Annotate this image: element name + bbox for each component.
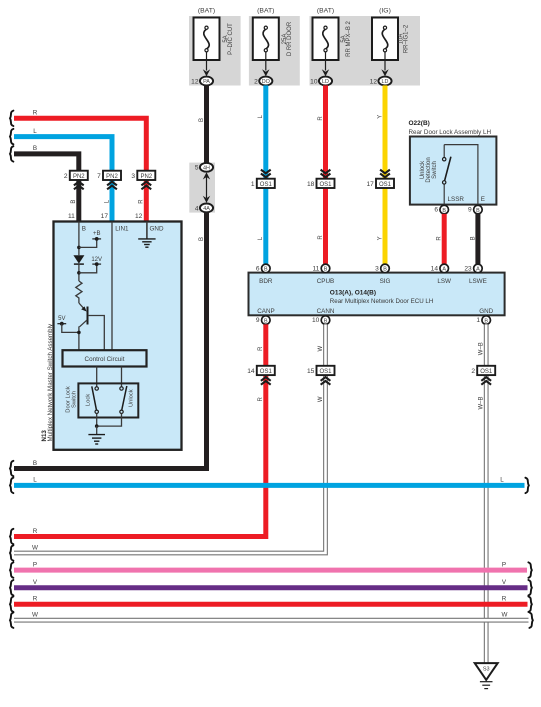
- svg-text:B: B: [264, 318, 268, 324]
- connector LD pin 12: [370, 77, 392, 86]
- control circuit box: [63, 350, 147, 366]
- wire W white bus: [14, 618, 529, 623]
- pin 23 A LSWE: [464, 264, 482, 273]
- svg-text:DO: DO: [262, 79, 270, 85]
- connector OS1 pin 1: [251, 179, 275, 188]
- pin 14 A LSW: [431, 264, 449, 273]
- pin 9 B CANP: [256, 316, 270, 325]
- svg-text:R: R: [33, 110, 38, 117]
- svg-text:(IG): (IG): [379, 7, 391, 14]
- svg-text:R: R: [139, 199, 145, 204]
- wire control to unlock switch: [121, 367, 123, 388]
- switch Unlock: [120, 386, 127, 413]
- svg-text:V: V: [33, 579, 38, 586]
- ground switch ground: [88, 426, 105, 444]
- svg-text:(BAT): (BAT): [317, 7, 334, 14]
- break symbol L right: [525, 478, 528, 493]
- connector panel 4H/4A background: [189, 163, 215, 213]
- svg-text:R: R: [502, 596, 507, 603]
- wire fuse4 to connector: [384, 52, 386, 71]
- svg-text:GND: GND: [479, 308, 493, 315]
- svg-text:Unlock: Unlock: [129, 389, 135, 407]
- svg-text:A: A: [442, 267, 446, 273]
- svg-text:PN2: PN2: [73, 174, 85, 180]
- switch Lock: [92, 386, 99, 413]
- svg-text:W: W: [502, 612, 508, 619]
- wire L blue top-left from edge to PN2 7: [14, 137, 112, 171]
- svg-text:1: 1: [476, 317, 480, 324]
- svg-text:4H: 4H: [203, 166, 210, 172]
- node +B: [77, 231, 101, 249]
- break symbol W right: [529, 613, 532, 628]
- svg-text:B: B: [199, 237, 205, 241]
- break symbol R left: [10, 529, 13, 544]
- node 5V: [57, 316, 80, 334]
- svg-text:Lock: Lock: [86, 394, 92, 406]
- svg-text:B: B: [484, 318, 488, 324]
- svg-text:CPUB: CPUB: [317, 278, 335, 285]
- svg-text:Switch: Switch: [432, 161, 438, 179]
- break symbol R top: [10, 111, 13, 126]
- svg-text:GND: GND: [150, 226, 164, 233]
- svg-text:6: 6: [256, 265, 260, 272]
- svg-text:CANP: CANP: [257, 308, 275, 315]
- svg-text:P: P: [33, 561, 37, 568]
- break symbol P left: [10, 562, 13, 577]
- pin 9 B of O22: [468, 205, 482, 214]
- svg-text:12: 12: [135, 213, 143, 220]
- svg-text:3: 3: [375, 265, 379, 272]
- wire P pink bus: [14, 568, 527, 573]
- wire LIN1 internal: [111, 222, 113, 351]
- svg-text:S3: S3: [483, 667, 490, 673]
- svg-text:LIN1: LIN1: [115, 226, 129, 233]
- svg-text:B: B: [383, 267, 387, 273]
- connector 4A pin 4: [195, 204, 213, 213]
- wire R red PN2 to pin 12: [144, 180, 149, 222]
- wire R red top-left from edge to PN2 3: [14, 118, 146, 170]
- svg-text:PN2: PN2: [106, 174, 118, 180]
- svg-text:B: B: [82, 226, 86, 233]
- svg-text:R: R: [318, 235, 324, 240]
- break symbol R2 left: [10, 597, 13, 612]
- resistor R1: [76, 281, 82, 303]
- wire switches to ground: [95, 414, 122, 428]
- wire between 4H and 4A: [203, 172, 210, 203]
- svg-text:18: 18: [307, 181, 315, 188]
- ground S3: [475, 663, 498, 689]
- svg-text:10: 10: [312, 317, 320, 324]
- svg-text:5: 5: [195, 165, 199, 172]
- svg-text:B: B: [33, 460, 37, 467]
- svg-text:7: 7: [97, 173, 101, 180]
- fuse panel 2 background: [249, 16, 300, 86]
- break symbol B bottom: [10, 461, 13, 476]
- svg-text:W: W: [318, 346, 324, 352]
- connector LD pin 10: [310, 77, 332, 86]
- connector OS1 pin 17: [366, 179, 394, 188]
- svg-text:OS1: OS1: [260, 369, 273, 375]
- break symbol V right: [528, 580, 531, 595]
- svg-text:OS1: OS1: [260, 182, 273, 188]
- wire L blue PN2 to pin 17: [110, 180, 115, 222]
- svg-text:11: 11: [312, 265, 319, 272]
- svg-text:1: 1: [251, 181, 255, 188]
- svg-text:4A: 4A: [203, 206, 210, 212]
- svg-text:LSW: LSW: [437, 278, 451, 285]
- svg-text:B: B: [470, 236, 476, 240]
- svg-text:12: 12: [191, 78, 199, 85]
- connector PA pin 12: [191, 77, 213, 86]
- master switch assembly N13 box: [54, 222, 182, 450]
- svg-text:W: W: [32, 612, 38, 619]
- break symbol P right: [528, 562, 531, 577]
- svg-text:A: A: [476, 267, 480, 273]
- svg-text:B: B: [476, 208, 480, 214]
- break symbol W2 left: [10, 613, 13, 628]
- svg-text:CANN: CANN: [317, 308, 335, 315]
- svg-text:P–DIC CUT: P–DIC CUT: [228, 23, 234, 55]
- svg-text:B: B: [264, 267, 268, 273]
- wire control to lock switch: [96, 367, 98, 388]
- svg-text:PA: PA: [203, 79, 210, 85]
- wire B black from PA: [204, 85, 209, 162]
- break symbol R right: [528, 597, 531, 612]
- svg-text:(BAT): (BAT): [198, 7, 215, 14]
- svg-text:W: W: [318, 396, 324, 402]
- wire W-B from GND down: [484, 324, 489, 663]
- connector OS1 pin 15: [307, 366, 335, 375]
- door lock switch box: [78, 383, 138, 417]
- svg-text:2: 2: [64, 173, 68, 180]
- wire R red LSSR to LSW: [442, 214, 447, 264]
- wire W white CANN down: [14, 324, 326, 553]
- svg-text:(BAT): (BAT): [257, 7, 274, 14]
- svg-text:12V: 12V: [91, 257, 102, 263]
- svg-text:W–B: W–B: [479, 342, 485, 355]
- wire B black from 4A down: [14, 212, 207, 468]
- svg-text:B: B: [442, 208, 446, 214]
- connector PN2 pin 2: [64, 171, 88, 180]
- diode D1: [73, 255, 84, 264]
- svg-text:Rear Door Lock Assembly LH: Rear Door Lock Assembly LH: [409, 129, 492, 136]
- wire L blue from DO: [263, 85, 268, 264]
- svg-text:Y: Y: [377, 115, 383, 119]
- connector PN2 pin 7: [97, 171, 121, 180]
- wire B black PN2 to pin 11: [76, 180, 81, 222]
- svg-text:O22(B): O22(B): [409, 120, 430, 127]
- connector DO pin 2: [254, 77, 272, 86]
- svg-text:R: R: [33, 596, 38, 603]
- svg-text:17: 17: [101, 213, 109, 220]
- connector PN2 pin 3: [131, 171, 155, 180]
- connector OS1 pin 18: [307, 179, 335, 188]
- svg-text:17: 17: [366, 181, 374, 188]
- svg-text:LSWE: LSWE: [469, 278, 487, 285]
- transistor Q1: [79, 303, 104, 350]
- wire R red bus: [14, 602, 528, 607]
- wire V violet bus: [14, 585, 528, 590]
- break symbol V left: [10, 580, 13, 595]
- svg-text:B: B: [33, 145, 37, 152]
- svg-text:PN2: PN2: [140, 174, 152, 180]
- fuse 5A RR MPX-B 2: [313, 18, 339, 61]
- svg-text:RR–IG1–2: RR–IG1–2: [404, 24, 410, 53]
- svg-text:23: 23: [464, 265, 472, 272]
- fuse panel 3-4 background: [310, 16, 421, 86]
- ECU box O13(A) O14(B): [249, 273, 505, 316]
- svg-text:L: L: [500, 477, 504, 484]
- svg-text:6: 6: [434, 207, 438, 214]
- svg-text:14: 14: [431, 265, 439, 272]
- svg-text:W–B: W–B: [479, 396, 485, 409]
- svg-text:9: 9: [468, 207, 472, 214]
- svg-text:OS1: OS1: [379, 182, 392, 188]
- svg-text:L: L: [33, 477, 37, 484]
- fuse 10A RR-IG1-2: [372, 18, 398, 61]
- svg-text:+B: +B: [93, 231, 101, 237]
- node 12V: [77, 257, 102, 281]
- break symbol L top: [10, 129, 13, 144]
- svg-text:W: W: [32, 544, 38, 551]
- pin 11 B CPUB: [312, 264, 329, 273]
- svg-text:P: P: [502, 561, 506, 568]
- connector OS1 pin 2: [471, 366, 495, 375]
- svg-text:L: L: [33, 128, 37, 135]
- wire Y yellow from LD: [383, 85, 388, 264]
- svg-text:9: 9: [256, 317, 260, 324]
- svg-text:4: 4: [195, 205, 199, 212]
- svg-text:B: B: [324, 318, 328, 324]
- svg-text:Multiplex Network Master Switc: Multiplex Network Master Switch Assembly: [47, 323, 54, 442]
- svg-text:3: 3: [131, 173, 135, 180]
- connector OS1 pin 14: [247, 366, 275, 375]
- svg-text:B: B: [324, 267, 328, 273]
- pin 10 B CANN: [312, 316, 330, 325]
- wire B black E to LSWE: [475, 214, 480, 264]
- svg-text:Rear Multiplex Network Door EC: Rear Multiplex Network Door ECU LH: [330, 298, 434, 305]
- break symbol B top: [10, 146, 13, 161]
- door lock assembly O22 box: [410, 137, 497, 205]
- pin 6 B BDR: [256, 264, 270, 273]
- fuse 5A P-DIC CUT: [194, 18, 220, 61]
- svg-text:V: V: [502, 579, 507, 586]
- svg-text:14: 14: [247, 368, 255, 375]
- svg-text:OS1: OS1: [319, 182, 332, 188]
- svg-text:5V: 5V: [58, 316, 65, 322]
- svg-text:2: 2: [471, 368, 475, 375]
- pin 1 B GND: [476, 316, 490, 325]
- svg-text:RR MPX–B 2: RR MPX–B 2: [346, 21, 352, 57]
- svg-text:R: R: [258, 396, 264, 401]
- wire R red CANP down: [14, 324, 266, 536]
- svg-text:2: 2: [254, 78, 258, 85]
- svg-text:Y: Y: [377, 236, 383, 240]
- svg-text:OS1: OS1: [319, 369, 332, 375]
- svg-text:B: B: [71, 200, 77, 204]
- wire fuse3 to connector: [325, 52, 327, 71]
- wire R red from LD: [323, 85, 328, 264]
- svg-text:D RR DOOR: D RR DOOR: [287, 21, 293, 56]
- fuse 25A D RR DOOR: [253, 18, 279, 61]
- svg-text:R: R: [437, 236, 443, 241]
- wire B black top-left from edge to PN2 2: [14, 154, 79, 171]
- svg-text:LD: LD: [382, 79, 389, 85]
- svg-text:10: 10: [310, 78, 318, 85]
- wire fuse2 to connector: [265, 52, 267, 71]
- svg-text:11: 11: [68, 213, 75, 220]
- svg-text:R: R: [258, 346, 264, 351]
- break symbol W left: [10, 545, 13, 560]
- ground GND internal: [138, 222, 155, 248]
- svg-text:LD: LD: [322, 79, 329, 85]
- unlock detection switch symbol: [443, 145, 478, 205]
- svg-text:B: B: [199, 118, 205, 122]
- pin 6 B of O22: [434, 205, 448, 214]
- pin 3 B SIG: [375, 264, 389, 273]
- connector 4H pin 5: [195, 163, 213, 172]
- svg-text:Switch: Switch: [71, 391, 77, 408]
- wire fuse1 to connector: [206, 52, 208, 71]
- svg-text:Control Circuit: Control Circuit: [85, 356, 125, 363]
- svg-text:12: 12: [370, 78, 378, 85]
- svg-text:R: R: [318, 116, 324, 121]
- wire B internal: [78, 222, 80, 256]
- svg-text:OS1: OS1: [480, 369, 493, 375]
- break symbol L left: [10, 478, 13, 493]
- wire L blue bus: [14, 483, 525, 488]
- svg-text:O13(A), O14(B): O13(A), O14(B): [330, 289, 376, 296]
- svg-text:E: E: [481, 196, 485, 203]
- svg-text:R: R: [33, 528, 38, 535]
- svg-text:BDR: BDR: [259, 278, 273, 285]
- svg-text:LSSR: LSSR: [448, 196, 465, 203]
- fuse panel 1 background: [189, 16, 241, 86]
- svg-text:SIG: SIG: [380, 278, 391, 285]
- svg-text:15: 15: [307, 368, 315, 375]
